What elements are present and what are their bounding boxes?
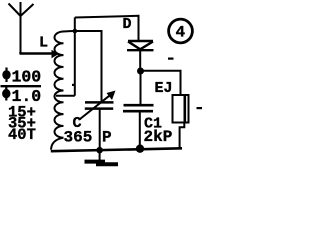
svg-text:100: 100 <box>12 68 42 87</box>
svg-text:2kP: 2kP <box>144 128 173 146</box>
svg-text:P: P <box>102 129 112 147</box>
svg-text:D: D <box>123 16 132 33</box>
svg-text:EJ: EJ <box>155 80 173 97</box>
svg-text:L: L <box>39 35 48 52</box>
svg-text:4: 4 <box>175 24 185 42</box>
svg-text:365: 365 <box>64 129 93 147</box>
svg-text:40T: 40T <box>8 126 36 144</box>
